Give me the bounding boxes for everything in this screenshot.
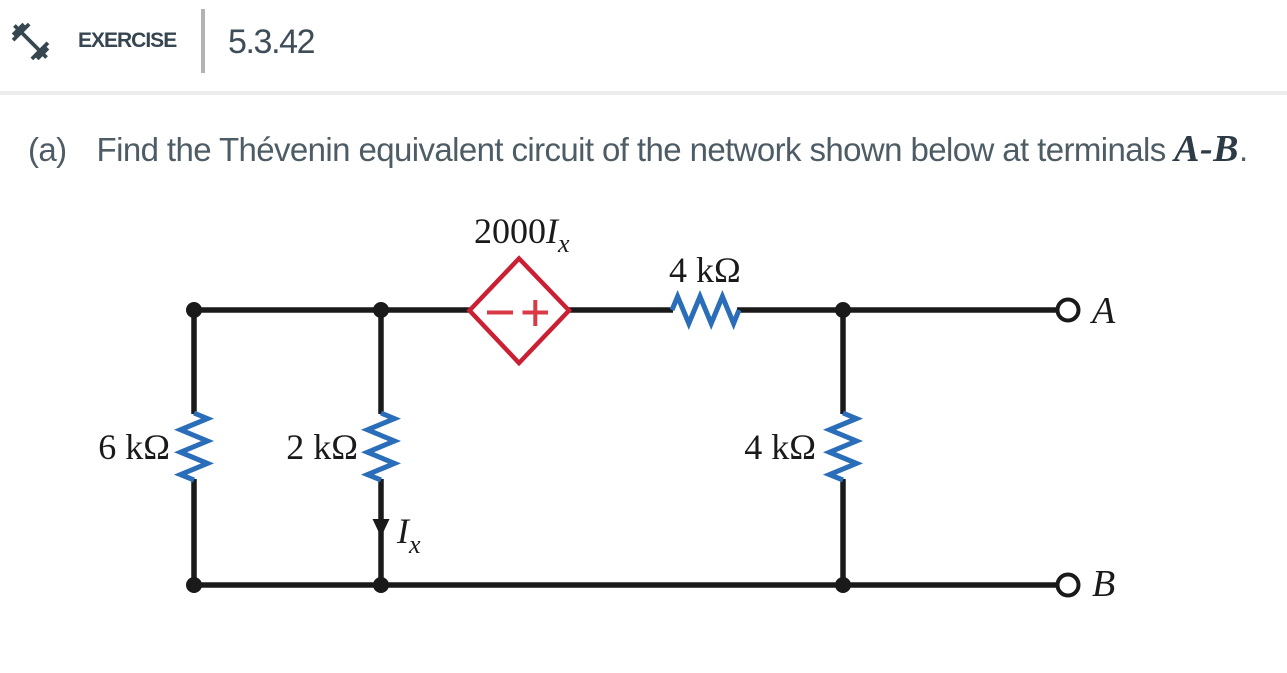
junction node top-right [835, 302, 851, 318]
junction node bottom-mid [373, 577, 389, 593]
gray separator band [0, 91, 1287, 95]
wire right branch lower [840, 479, 846, 587]
resistor R4 4 kOhm horizontal zigzag [672, 297, 739, 324]
wire left branch upper [191, 308, 197, 414]
wire bottom: node to terminal B [194, 582, 1057, 588]
svg-text:Ix: Ix [396, 511, 421, 559]
wire mid branch upper [378, 308, 384, 414]
wire mid branch lower [378, 479, 384, 587]
svg-text:B: B [1092, 563, 1115, 605]
svg-text:6 kΩ: 6 kΩ [98, 427, 170, 467]
wire: 4k resistor to terminal A [737, 307, 1057, 313]
wire right branch upper [840, 308, 846, 414]
svg-text:4 kΩ: 4 kΩ [669, 250, 741, 290]
svg-text:4 kΩ: 4 kΩ [744, 427, 816, 467]
wire: diamond to 4k resistor [568, 307, 673, 313]
current arrow Ix [373, 519, 390, 537]
terminal B circle [1058, 575, 1079, 596]
wire left branch lower [191, 479, 197, 587]
dependent source U1 diamond [470, 259, 570, 364]
junction node top-mid [373, 302, 389, 318]
wire top-left: node1 to diamond [194, 307, 471, 313]
exercise dumbbell icon [8, 19, 53, 64]
resistor R3 4 kOhm vertical zigzag [830, 413, 857, 480]
svg-text:2 kΩ: 2 kΩ [286, 427, 358, 467]
minus sign inside source [487, 311, 513, 315]
resistor R2 2 kOhm zigzag [368, 413, 395, 480]
svg-text:A: A [1089, 290, 1116, 332]
junction node top-left [186, 302, 202, 318]
terminal A circle [1058, 300, 1079, 321]
resistor R1 6 kOhm zigzag [181, 413, 208, 480]
svg-text:2000Ix: 2000Ix [474, 211, 570, 258]
header label EXERCISE [78, 30, 176, 51]
junction node bottom-left [186, 577, 202, 593]
plus sign inside source [523, 311, 549, 315]
junction node bottom-right [835, 577, 851, 593]
problem statement [28, 133, 1248, 166]
exercise number 5.3.42 [228, 25, 314, 59]
header divider [201, 9, 205, 73]
